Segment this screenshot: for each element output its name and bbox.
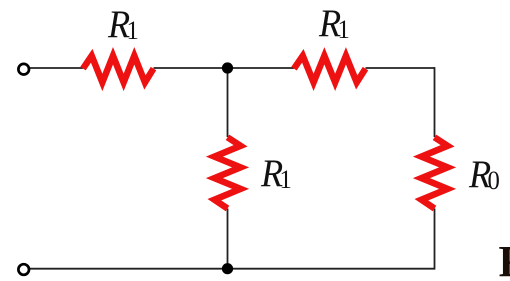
wire middle vertical upper <box>227 68 229 137</box>
partial caption letter F bottom-right <box>499 240 510 281</box>
node junction bottom <box>222 263 233 274</box>
wire top rail right <box>366 67 435 69</box>
wire top rail left <box>30 67 83 69</box>
wire top rail middle <box>154 67 295 69</box>
resistor R0 right vertical zigzag <box>421 137 447 208</box>
wire middle vertical lower <box>227 209 229 269</box>
label R1 middle <box>261 154 292 193</box>
resistor R1 middle vertical zigzag <box>214 137 240 208</box>
label R1 top-right <box>319 4 350 43</box>
label R0 right <box>469 155 500 194</box>
label R1 top-left <box>108 5 139 44</box>
terminal bottom-left <box>18 264 29 275</box>
terminal top-left <box>18 64 29 75</box>
resistor R1 top-right zigzag <box>294 56 366 83</box>
resistor R1 top-left zigzag <box>83 56 154 83</box>
wire right vertical upper <box>434 67 436 137</box>
node junction top <box>222 62 233 73</box>
wire right vertical lower <box>434 209 436 270</box>
wire bottom rail <box>30 268 435 270</box>
